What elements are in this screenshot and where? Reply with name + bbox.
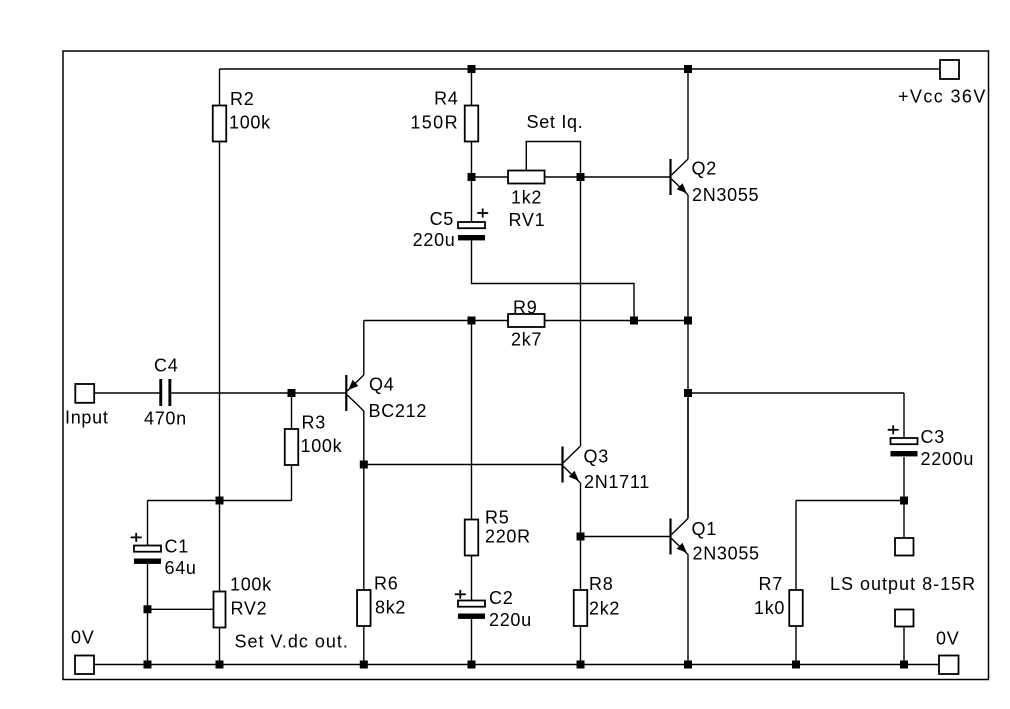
svg-text:Input: Input (65, 408, 109, 428)
svg-text:C5: C5 (430, 209, 454, 229)
svg-text:C4: C4 (154, 356, 178, 376)
svg-text:R6: R6 (374, 574, 398, 594)
svg-text:0V: 0V (936, 629, 959, 649)
svg-text:100k: 100k (301, 436, 343, 456)
svg-text:BC212: BC212 (369, 401, 428, 421)
svg-text:R7: R7 (759, 574, 783, 594)
svg-text:100k: 100k (230, 575, 272, 595)
svg-text:R9: R9 (513, 298, 537, 318)
svg-text:C1: C1 (165, 537, 189, 557)
svg-text:Q3: Q3 (584, 447, 609, 467)
svg-text:2k7: 2k7 (511, 330, 542, 350)
svg-text:Set Iq.: Set Iq. (527, 112, 584, 132)
svg-text:R4: R4 (434, 89, 458, 109)
svg-text:Q4: Q4 (369, 375, 394, 395)
svg-text:R5: R5 (485, 508, 509, 528)
svg-text:220u: 220u (489, 610, 532, 630)
svg-text:2k2: 2k2 (589, 599, 620, 619)
svg-text:470n: 470n (144, 409, 187, 429)
svg-text:C3: C3 (921, 427, 945, 447)
svg-text:220u: 220u (413, 230, 456, 250)
svg-text:1k0: 1k0 (754, 598, 785, 618)
svg-text:Q2: Q2 (692, 159, 717, 179)
svg-text:R8: R8 (589, 574, 613, 594)
svg-text:Set V.dc out.: Set V.dc out. (235, 632, 349, 652)
svg-text:2N3055: 2N3055 (692, 185, 759, 205)
svg-text:8k2: 8k2 (375, 598, 406, 618)
svg-text:Q1: Q1 (692, 519, 717, 539)
svg-text:RV1: RV1 (509, 210, 546, 230)
svg-text:LS output 8-15R: LS output 8-15R (830, 574, 976, 594)
svg-text:R2: R2 (230, 89, 254, 109)
svg-text:64u: 64u (165, 558, 197, 578)
svg-text:C2: C2 (489, 588, 513, 608)
svg-text:2N3055: 2N3055 (693, 544, 760, 564)
svg-text:1k2: 1k2 (511, 188, 542, 208)
svg-text:220R: 220R (485, 527, 531, 547)
svg-text:150R: 150R (410, 113, 459, 133)
svg-text:100k: 100k (229, 113, 271, 133)
svg-text:+Vcc 36V: +Vcc 36V (898, 87, 987, 107)
svg-text:R3: R3 (302, 413, 326, 433)
svg-text:2200u: 2200u (921, 449, 975, 469)
svg-text:RV2: RV2 (231, 599, 268, 619)
svg-text:2N1711: 2N1711 (584, 472, 650, 492)
svg-text:0V: 0V (71, 628, 94, 648)
